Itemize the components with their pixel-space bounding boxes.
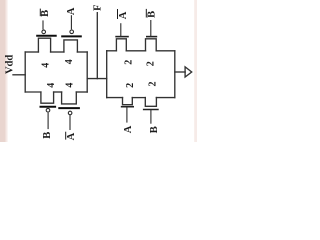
wire node F to N1 drain xyxy=(107,50,117,52)
wire P1 drain to P2 source xyxy=(51,51,64,53)
svg-text:F: F xyxy=(93,4,104,10)
PMOS bubble of P2 xyxy=(70,30,74,34)
gate bar of N4 xyxy=(143,109,159,111)
wire P2 drain to output node F xyxy=(77,51,87,53)
PMOS bubble of P4 xyxy=(68,111,72,115)
wire gnd rail (right edge of pull-down network) xyxy=(174,51,176,98)
wire Vdd stub from label to pull-up network xyxy=(13,74,25,76)
svg-text:4: 4 xyxy=(64,59,75,64)
wire P3 drain to P4 source xyxy=(54,91,62,93)
svg-text:A: A xyxy=(66,7,77,15)
svg-text:A: A xyxy=(66,132,77,140)
ground xyxy=(185,67,192,77)
overbar of A-bar at P4 xyxy=(65,132,67,140)
wire gate of N1 to label A-bar xyxy=(120,23,122,36)
wire output node F (right edge of pull-up network) xyxy=(86,52,88,92)
svg-text:2: 2 xyxy=(147,82,158,87)
gate bar of P1 xyxy=(36,35,57,37)
wire gate of P1 to label B-bar xyxy=(42,20,44,29)
svg-text:4: 4 xyxy=(64,83,75,88)
svg-text:B: B xyxy=(42,132,53,139)
svg-text:4: 4 xyxy=(46,83,57,88)
svg-text:A: A xyxy=(118,11,129,19)
wire gate of N2 to label B-bar xyxy=(150,20,152,37)
PMOS bubble of P1 xyxy=(42,30,46,34)
transistor P1 channel (PMOS, gate B-bar, size 4) xyxy=(38,38,50,52)
wire P4 drain to output node F xyxy=(76,91,87,93)
transistor N2 channel (NMOS, gate B-bar, size 2) xyxy=(146,39,157,51)
wire N1 source to N2 drain xyxy=(126,50,145,52)
wire output F to label xyxy=(96,13,98,79)
transistor P4 channel (PMOS, gate A-bar, size 4) xyxy=(62,92,77,104)
svg-text:2: 2 xyxy=(125,83,136,88)
transistor N3 channel (NMOS, gate A, size 2) xyxy=(123,98,133,105)
PMOS bubble of P3 xyxy=(46,108,50,112)
svg-text:B: B xyxy=(40,10,51,17)
transistor N1 channel (NMOS, gate A-bar, size 2) xyxy=(116,39,126,51)
gate bar of N1 xyxy=(115,36,129,38)
wire gate of N3 to label A xyxy=(126,107,128,123)
transistor N4 channel (NMOS, gate B, size 2) xyxy=(145,98,156,107)
svg-text:Vdd: Vdd xyxy=(5,55,16,74)
wire gate of P3 to label B xyxy=(47,113,49,130)
wire N4 source to gnd rail xyxy=(156,97,174,99)
svg-text:4: 4 xyxy=(41,63,52,68)
wire Vdd rail to P1 source xyxy=(25,51,38,53)
wire gate of N4 to label B xyxy=(150,110,152,124)
transistor P2 channel (PMOS, gate A, size 4) xyxy=(64,40,78,52)
svg-text:A: A xyxy=(123,125,134,133)
wire Vdd rail (left edge of pull-up network) xyxy=(24,52,26,92)
wire Vdd rail to P3 source xyxy=(25,91,41,93)
svg-text:B: B xyxy=(147,11,158,18)
wire gate of P2 to label A xyxy=(70,15,72,29)
overbar of A-bar at N1 xyxy=(117,9,119,19)
gate bar of P4 xyxy=(58,107,80,109)
gate bar of N2 xyxy=(146,36,157,38)
svg-text:B: B xyxy=(149,126,160,133)
gate bar of N3 xyxy=(121,106,134,108)
wire node F to N3 drain xyxy=(107,97,123,99)
svg-text:2: 2 xyxy=(124,60,135,65)
overbar of B-bar at N2 xyxy=(145,9,147,18)
gate bar of P2 xyxy=(61,35,82,37)
wire node F (left edge of pull-down network) xyxy=(106,51,108,98)
wire node F between pull-up and pull-down networks xyxy=(87,78,107,80)
transistor P3 channel (PMOS, gate B, size 4) xyxy=(41,92,54,103)
wire N3 source to N4 drain xyxy=(132,97,145,99)
wire gate of P4 to label A-bar xyxy=(69,115,71,130)
wire N2 source to gnd rail xyxy=(156,50,175,52)
wire gnd rail to ground symbol xyxy=(175,71,185,73)
gate bar of P3 xyxy=(40,106,57,108)
overbar of B-bar at P1 xyxy=(39,9,41,17)
svg-text:2: 2 xyxy=(146,61,157,66)
